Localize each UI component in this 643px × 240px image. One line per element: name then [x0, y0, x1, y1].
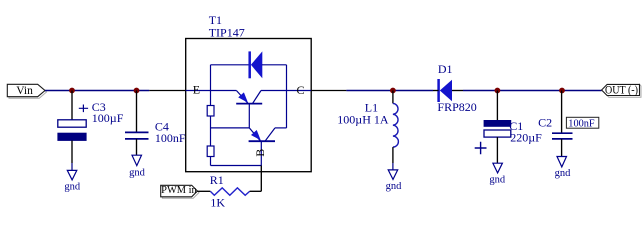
svg-text:PWM in: PWM in — [161, 185, 197, 196]
wire T1 internal diode left — [211, 64, 250, 66]
svg-text:TIP147: TIP147 — [209, 25, 245, 39]
capacitor C1 plate filled — [484, 120, 511, 126]
transistor Q2 emitter arrow — [251, 130, 261, 140]
wire Vin to E pin — [45, 90, 149, 92]
port OUT shadow — [602, 84, 641, 97]
pin C (black) — [311, 90, 346, 92]
wire T1 internal E rail — [186, 90, 237, 92]
svg-text:1K: 1K — [210, 195, 225, 209]
svg-text:gnd: gnd — [64, 181, 81, 192]
capacitor C2 plates — [552, 133, 573, 139]
transistor Q1 collector — [253, 91, 262, 104]
svg-text:100nF: 100nF — [568, 118, 595, 129]
ground L1 — [388, 170, 398, 180]
pin C3 bottom — [71, 141, 73, 164]
pin L1 bottom — [392, 147, 394, 163]
wire T1 internal bottom horizontal — [211, 165, 262, 167]
wire T1 internal diode right — [262, 64, 287, 66]
junction node C4 — [134, 88, 140, 94]
wire Q2 collector horizontal — [275, 127, 287, 129]
junction node C1 — [495, 88, 501, 94]
diode D1 triangle — [440, 80, 452, 102]
svg-text:C: C — [297, 83, 305, 97]
port PWM shadow — [162, 191, 199, 198]
junction node C2 — [559, 88, 565, 94]
pin R1 left — [197, 190, 210, 192]
pin R1 right — [250, 190, 262, 192]
label C2 value boxed — [566, 117, 598, 128]
svg-text:E: E — [193, 83, 200, 97]
capacitor C1 plus sign — [475, 142, 487, 155]
pin D1 left — [433, 90, 439, 92]
port Vin — [7, 84, 45, 96]
svg-text:gnd: gnd — [129, 167, 146, 178]
wire L1 to gnd — [392, 163, 394, 170]
svg-text:Vin: Vin — [16, 85, 33, 97]
ground C3 — [67, 170, 77, 180]
svg-text:gnd: gnd — [555, 168, 572, 179]
transistor Q2 bar — [249, 140, 275, 142]
diode T1 internal cathode bar — [248, 51, 251, 78]
resistor T1 internal lower — [207, 146, 214, 157]
pin C2 top — [561, 91, 563, 134]
wire T1 internal N1 horizontal — [211, 127, 250, 129]
svg-text:FRP820: FRP820 — [437, 100, 476, 114]
pin E (black) — [149, 90, 185, 92]
transistor Q1 emitter — [236, 91, 248, 104]
port Vin shadow — [9, 91, 47, 99]
svg-text:100nF: 100nF — [155, 131, 186, 145]
transistor Q1 bar — [236, 103, 262, 105]
wire D1 to OUT — [463, 90, 602, 92]
wire T1 internal right vertical — [286, 65, 288, 128]
svg-text:100µF: 100µF — [92, 111, 124, 125]
ground C1 — [493, 163, 503, 173]
pin C3 top — [71, 91, 73, 120]
transistor Q1 emitter arrow — [238, 92, 248, 102]
junction node L1 — [390, 88, 396, 94]
capacitor C3 plate hollow — [58, 120, 86, 127]
resistor R1 zigzag — [210, 188, 249, 195]
svg-text:D1: D1 — [438, 62, 453, 76]
svg-text:220µF: 220µF — [510, 130, 542, 144]
svg-text:gnd: gnd — [489, 175, 506, 186]
pin C2 bottom — [561, 139, 563, 157]
transistor Q2 emitter — [249, 128, 260, 141]
ground C4 — [132, 155, 142, 165]
wire T1 internal left vertical 3 — [210, 157, 212, 166]
svg-text:B: B — [253, 149, 267, 157]
transistor Q2 base — [260, 141, 262, 165]
wire T1 internal left vertical — [210, 65, 212, 106]
resistor T1 internal upper — [207, 106, 214, 117]
diode D1 cathode bar — [437, 79, 440, 102]
port OUT — [602, 84, 640, 95]
port PWM in — [161, 185, 198, 197]
wire C pin to D1 — [346, 90, 433, 92]
svg-text:gnd: gnd — [386, 181, 403, 192]
inductor L1 coil — [393, 103, 399, 147]
transistor T1 box — [186, 39, 312, 172]
svg-text:100µH 1A: 100µH 1A — [337, 113, 389, 127]
pin C4 top — [136, 91, 138, 133]
svg-text:C2: C2 — [538, 115, 552, 129]
pin B (black) — [260, 166, 262, 192]
pin C4 bottom — [136, 139, 138, 155]
wire C3 to gnd — [71, 163, 73, 170]
pin D1 right — [452, 90, 463, 92]
capacitor C4 plates — [125, 132, 149, 139]
wire T1 internal C rail — [261, 90, 311, 92]
wire T1 internal left vertical 2 — [210, 116, 212, 146]
transistor Q2 collector — [265, 128, 275, 141]
pin C1 bottom — [496, 137, 498, 163]
pin C1 top — [496, 91, 498, 121]
junction node C3 — [69, 88, 75, 94]
ground C2 — [557, 157, 567, 167]
capacitor C3 plus sign — [79, 105, 88, 113]
capacitor C3 plate filled — [58, 133, 86, 140]
diode T1 internal triangle — [251, 51, 262, 78]
svg-text:R1: R1 — [210, 173, 224, 187]
transistor Q1 base — [248, 104, 250, 128]
svg-text:OUT (-): OUT (-) — [605, 84, 638, 96]
pin L1 top — [392, 91, 394, 104]
capacitor C1 plate hollow — [484, 130, 511, 137]
